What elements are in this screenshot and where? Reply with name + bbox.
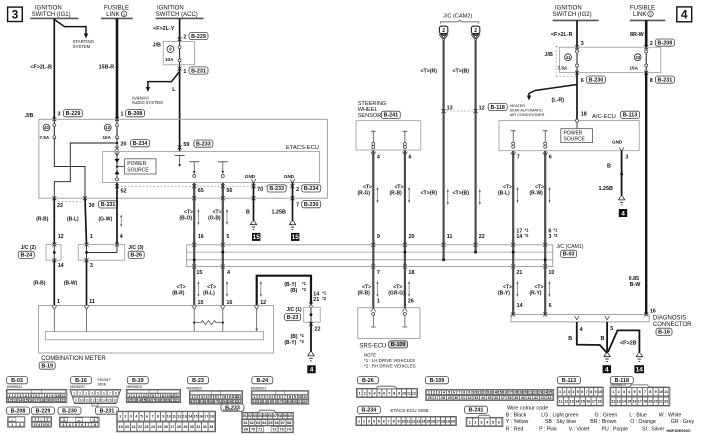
svg-text:(R-L): (R-L): [203, 291, 215, 297]
svg-text:67: 67: [281, 421, 285, 425]
svg-text:17: 17: [592, 400, 596, 404]
svg-text:1.25B: 1.25B: [599, 186, 613, 192]
svg-text:21: 21: [516, 270, 522, 276]
svg-text:18: 18: [409, 270, 415, 276]
svg-text:21: 21: [233, 400, 237, 404]
svg-text:6: 6: [152, 394, 154, 398]
connector table B-23: [188, 377, 209, 384]
connector table B-16 front side: [71, 377, 92, 384]
diagnosis pin 5 wire B to ground: [606, 322, 608, 353]
connector table B-208: [7, 407, 30, 414]
svg-text:21: 21: [298, 400, 302, 404]
meter inner bar: [45, 332, 263, 340]
svg-text:L : Blue: L : Blue: [629, 413, 647, 419]
svg-text:3: 3: [625, 155, 628, 161]
svg-text:1: 1: [63, 418, 65, 422]
svg-text:B: B: [601, 336, 605, 342]
junction dot on B wire: [620, 173, 623, 176]
svg-text:AUDIO SYSTEM: AUDIO SYSTEM: [132, 100, 164, 105]
svg-text:BR : Brown: BR : Brown: [590, 419, 616, 425]
J/C (CAM1) bus box B-03: [187, 245, 553, 267]
connector table B-241: [465, 406, 488, 413]
svg-text:3: 3: [368, 419, 370, 423]
svg-text:52: 52: [248, 414, 252, 418]
svg-text:12: 12: [8, 399, 12, 403]
svg-text:10A: 10A: [103, 135, 112, 140]
svg-text:W : White: W : White: [659, 413, 682, 419]
svg-text:*2: *2: [300, 339, 305, 344]
svg-text:1: 1: [559, 390, 561, 394]
svg-text:70: 70: [251, 428, 255, 432]
svg-text:(B-Y): (B-Y): [498, 291, 510, 297]
svg-text:J/C (CAM2): J/C (CAM2): [443, 14, 472, 20]
svg-text:B-23: B-23: [192, 378, 204, 384]
svg-text:4: 4: [120, 234, 123, 240]
svg-text:13: 13: [487, 391, 491, 395]
fuse 10 10A: [104, 124, 111, 131]
svg-text:12: 12: [252, 400, 256, 404]
pin chevrons under A/C-ECU: [511, 152, 516, 156]
svg-text:9: 9: [229, 395, 231, 399]
svg-text:*1: *1: [322, 290, 327, 295]
wire <T>(R-G) SWS pin4 to bus: [372, 150, 374, 245]
wire (R-B) J/C2 to meter pin 1: [53, 260, 55, 305]
svg-text:20: 20: [523, 391, 527, 395]
svg-text:B-W: B-W: [630, 282, 642, 288]
pin 8 B-231: [644, 71, 648, 75]
svg-text:B-16: B-16: [658, 330, 670, 336]
svg-text:22: 22: [303, 400, 307, 404]
svg-text:B-229: B-229: [36, 408, 51, 414]
svg-text:12: 12: [564, 400, 568, 404]
svg-text:(R-B): (R-B): [358, 291, 371, 297]
connector table B-24: [252, 377, 273, 384]
svg-text:<F>2L-R: <F>2L-R: [551, 32, 573, 38]
svg-text:B-03: B-03: [563, 252, 575, 258]
svg-text:6: 6: [215, 395, 217, 399]
svg-text:26: 26: [408, 298, 414, 304]
connector table B-233: [221, 404, 244, 411]
svg-text:17: 17: [214, 400, 218, 404]
svg-text:(B): (B): [290, 288, 297, 294]
diagnosis connector box B-16: [511, 315, 649, 322]
svg-text:*1 : LH DRIVE VEHICLES: *1 : LH DRIVE VEHICLES: [364, 358, 415, 363]
svg-text:53: 53: [253, 414, 257, 418]
svg-text:2: 2: [363, 419, 365, 423]
svg-text:66: 66: [275, 421, 279, 425]
wire 1.25B pin 2 to ground: [292, 198, 294, 221]
svg-text:9: 9: [294, 395, 296, 399]
svg-text:22: 22: [237, 400, 241, 404]
svg-text:15: 15: [142, 399, 146, 403]
svg-text:1: 1: [183, 69, 186, 75]
connector table B-118: [610, 377, 633, 384]
svg-text:17: 17: [436, 419, 440, 423]
fuse 9 10A: [167, 46, 174, 53]
connector table B-03: [7, 377, 28, 384]
svg-text:21: 21: [313, 297, 319, 303]
svg-text:22: 22: [664, 400, 668, 404]
A/C-ECU internal pin 7: [511, 130, 516, 132]
svg-text:GND: GND: [612, 140, 623, 145]
wire <T>(R-L) bus to meter 16: [222, 267, 224, 306]
svg-text:17: 17: [204, 415, 208, 419]
svg-text:ETACS-ECU: ETACS-ECU: [286, 145, 319, 151]
svg-text:*2: *2: [554, 233, 559, 238]
svg-text:3: 3: [368, 391, 370, 395]
svg-text:B-24: B-24: [20, 253, 32, 259]
svg-text:14: 14: [58, 263, 64, 269]
svg-text:3: 3: [90, 263, 93, 269]
ground tag 14: [634, 365, 644, 373]
SWS internal pin 4: [371, 130, 376, 132]
svg-text:SI : Silver: SI : Silver: [642, 426, 664, 432]
wire <T>(R-W) A/C pin6 to bus: [544, 151, 546, 245]
wire <T>(GR-G) bus to SRS 26: [404, 267, 406, 308]
svg-text:J/C (CAM1): J/C (CAM1): [556, 244, 583, 250]
svg-text:3: 3: [19, 394, 21, 398]
svg-text:33: 33: [209, 425, 213, 429]
svg-text:15: 15: [581, 400, 585, 404]
svg-text:7: 7: [586, 390, 588, 394]
svg-text:30: 30: [89, 203, 95, 209]
J/C (CAM2) connector symbol 2: [471, 26, 479, 33]
svg-text:31: 31: [196, 425, 200, 429]
svg-text:8R-W: 8R-W: [630, 32, 645, 38]
svg-text:POWER: POWER: [127, 161, 146, 167]
svg-text:2: 2: [79, 392, 81, 396]
wire (B-Y) meter 12 loop to J/C1: [257, 276, 311, 306]
ETACS internal pin 56: [218, 161, 228, 163]
svg-text:41: 41: [527, 396, 531, 400]
svg-text:6: 6: [409, 155, 412, 161]
svg-text:O : Orange: O : Orange: [630, 419, 656, 425]
svg-text:11: 11: [477, 391, 481, 395]
svg-text:LINK: LINK: [633, 12, 646, 18]
wire (B-W) J/C3 to meter pin 11: [86, 260, 88, 305]
svg-text:8: 8: [157, 415, 159, 419]
svg-text:10A: 10A: [165, 57, 174, 62]
svg-text:5: 5: [378, 419, 380, 423]
fuse 40 7.5A: [43, 124, 50, 131]
svg-text:3: 3: [62, 423, 64, 427]
svg-text:58: 58: [278, 414, 282, 418]
wire <T>(R) center left: [443, 40, 445, 245]
connector table B-231: [96, 407, 119, 414]
svg-text:12: 12: [177, 415, 181, 419]
J/B bottom edge pins 65 56 70 2: [193, 183, 195, 199]
A/C-ECU internal pin 6: [543, 130, 548, 132]
svg-text:21: 21: [528, 391, 532, 395]
svg-text:13: 13: [617, 400, 621, 404]
svg-text:1: 1: [469, 420, 471, 424]
svg-text:37: 37: [501, 396, 505, 400]
svg-text:4: 4: [605, 367, 609, 374]
wire IG1 <F>2L-B: [53, 18, 55, 119]
svg-text:9: 9: [398, 391, 400, 395]
svg-text:15A: 15A: [630, 66, 639, 71]
svg-text:9: 9: [595, 390, 597, 394]
wire fusible link 5 8R-W: [645, 20, 648, 47]
bus junction dots: [193, 245, 195, 267]
svg-text:10: 10: [233, 395, 237, 399]
svg-text:22: 22: [57, 203, 63, 209]
right junction block box: [560, 47, 661, 72]
wire <T>(O-B) pin 56 to bus: [222, 198, 224, 245]
wire <T>(B-O) pin 65 to bus: [193, 198, 195, 245]
svg-text:3: 3: [12, 7, 19, 21]
svg-text:LG : Light green: LG : Light green: [541, 413, 578, 419]
svg-text:7: 7: [296, 203, 299, 209]
svg-text:*2: *2: [302, 287, 307, 292]
svg-text:B-234: B-234: [304, 186, 319, 192]
svg-text:4: 4: [310, 367, 314, 374]
wire (B-L) pin 30 to J/C3: [85, 198, 87, 244]
svg-text:29: 29: [448, 396, 452, 400]
svg-text:31: 31: [461, 396, 465, 400]
wire (R-B) pin 22 to J/C2: [53, 198, 55, 244]
svg-text:41: 41: [566, 55, 571, 60]
svg-text:16: 16: [29, 399, 33, 403]
svg-text:(R-B): (R-B): [33, 281, 46, 287]
junction block big box: [39, 119, 328, 198]
svg-text:MB988815: MB988815: [127, 385, 143, 389]
svg-text:4: 4: [91, 392, 93, 396]
svg-text:11: 11: [237, 395, 241, 399]
ETACS internal pin 59: [175, 155, 185, 157]
svg-text:15: 15: [204, 400, 208, 404]
svg-text:6: 6: [498, 420, 500, 424]
svg-text:8: 8: [393, 391, 395, 395]
svg-text:16: 16: [273, 400, 277, 404]
svg-text:SWITCH (IG2): SWITCH (IG2): [553, 12, 592, 18]
svg-text:18: 18: [513, 391, 517, 395]
wire <T>(R-B) bus to SRS 1: [372, 267, 374, 308]
svg-text:19: 19: [648, 400, 652, 404]
svg-text:2: 2: [183, 34, 186, 40]
svg-text:40: 40: [44, 125, 49, 130]
wire ACC L to ETACS: [179, 69, 181, 152]
svg-text:B-234: B-234: [362, 408, 377, 414]
branch to heater arrow: [529, 85, 577, 97]
svg-text:1: 1: [191, 395, 193, 399]
svg-text:22: 22: [533, 391, 537, 395]
svg-text:5: 5: [274, 395, 276, 399]
svg-text:20: 20: [121, 142, 127, 148]
connector table B-19: [127, 377, 148, 384]
svg-text:SYSTEM: SYSTEM: [73, 44, 91, 49]
svg-text:22: 22: [315, 327, 321, 333]
svg-text:3: 3: [85, 392, 87, 396]
svg-text:6: 6: [279, 395, 281, 399]
svg-text:SRS-ECU: SRS-ECU: [359, 343, 386, 349]
svg-text:SWITCH (ACC): SWITCH (ACC): [156, 12, 198, 18]
svg-text:16: 16: [650, 309, 656, 315]
svg-text:18: 18: [581, 111, 587, 117]
svg-text:Wire colour code: Wire colour code: [507, 406, 548, 412]
svg-text:3: 3: [138, 394, 140, 398]
combination meter box B-19: [39, 306, 274, 353]
svg-text:6: 6: [103, 392, 105, 396]
svg-text:42: 42: [534, 396, 538, 400]
svg-text:6: 6: [453, 391, 455, 395]
svg-text:20: 20: [50, 399, 54, 403]
svg-text:1: 1: [121, 112, 124, 118]
svg-text:15: 15: [194, 415, 198, 419]
svg-text:2: 2: [364, 391, 366, 395]
svg-text:72: 72: [272, 428, 276, 432]
svg-text:65: 65: [268, 421, 272, 425]
svg-text:19: 19: [288, 400, 292, 404]
svg-text:B: B: [568, 336, 572, 342]
pin chevrons under SWS: [371, 152, 376, 156]
svg-text:B-113: B-113: [623, 113, 637, 119]
svg-text:8: 8: [94, 423, 96, 427]
svg-text:B-109: B-109: [391, 342, 406, 348]
svg-text:22: 22: [479, 234, 485, 240]
svg-text:40: 40: [521, 396, 525, 400]
svg-text:B-231: B-231: [100, 408, 115, 414]
svg-text:7: 7: [458, 391, 460, 395]
svg-text:4: 4: [621, 210, 625, 217]
svg-text:7: 7: [644, 390, 646, 394]
svg-text:GND: GND: [245, 174, 256, 179]
svg-text:J/C (2): J/C (2): [21, 245, 37, 251]
svg-text:12: 12: [127, 399, 131, 403]
svg-text:B-03: B-03: [11, 378, 23, 384]
svg-text:2: 2: [442, 28, 445, 34]
svg-text:43: 43: [541, 396, 545, 400]
svg-text:73: 73: [280, 428, 284, 432]
svg-text:5: 5: [492, 420, 494, 424]
svg-text:18: 18: [643, 400, 647, 404]
svg-text:6: 6: [549, 303, 552, 309]
svg-text:B-231: B-231: [191, 68, 206, 74]
svg-text:11: 11: [172, 415, 176, 419]
wire IG2 <F>2L-R: [576, 20, 578, 47]
svg-text:71: 71: [258, 428, 262, 432]
svg-text:16: 16: [113, 399, 117, 403]
ground A/C-ECU: [618, 197, 625, 200]
svg-text:16: 16: [146, 399, 150, 403]
meter resistor: [193, 322, 195, 324]
svg-text:38: 38: [507, 396, 511, 400]
svg-text:7: 7: [41, 394, 43, 398]
svg-text:<T>(R): <T>(R): [421, 191, 438, 197]
svg-text:28: 28: [441, 396, 445, 400]
wire <F>2B to ground 14: [608, 330, 639, 353]
ground J/C1: [307, 353, 314, 356]
svg-text:1: 1: [253, 395, 255, 399]
svg-text:5: 5: [448, 391, 450, 395]
svg-text:13: 13: [132, 399, 136, 403]
svg-text:*1: *1: [554, 227, 559, 232]
wire ACC <F>2L-Y: [179, 18, 181, 41]
SRS-ECU box B-109: [358, 308, 420, 339]
svg-text:13: 13: [96, 399, 100, 403]
svg-text:9: 9: [377, 234, 380, 240]
svg-text:11: 11: [89, 299, 95, 305]
svg-text:15: 15: [292, 234, 300, 241]
svg-text:15: 15: [426, 419, 430, 423]
svg-text:5: 5: [226, 234, 229, 240]
svg-text:R : Red: R : Red: [506, 426, 524, 432]
svg-text:IGNITION: IGNITION: [157, 6, 184, 12]
svg-text:FUSIBLE: FUSIBLE: [104, 6, 129, 12]
svg-text:*1: *1: [300, 333, 305, 338]
svg-text:B-19: B-19: [41, 363, 53, 369]
ETACS power source with diodes: [116, 151, 118, 177]
wire <T>(R-Y) bus to diagnosis 6: [544, 267, 546, 315]
ground diagnosis right: [636, 353, 643, 356]
svg-text:5: 5: [75, 423, 77, 427]
wire fusible link 15B-R: [116, 18, 119, 119]
branch to AV and NAVI audio system: [148, 72, 180, 89]
svg-text:1: 1: [73, 392, 75, 396]
svg-text:19: 19: [518, 391, 522, 395]
svg-text:20: 20: [293, 400, 297, 404]
svg-text:28: 28: [177, 425, 181, 429]
svg-text:10: 10: [401, 419, 405, 423]
svg-text:B-230: B-230: [589, 77, 604, 83]
wire <T>(B-R) bus to meter 15: [193, 267, 195, 306]
svg-text:5: 5: [210, 395, 212, 399]
svg-text:9: 9: [162, 415, 164, 419]
svg-text:7: 7: [284, 395, 286, 399]
meter internal wiring: [53, 309, 55, 332]
svg-text:9: 9: [468, 391, 470, 395]
svg-text:B-19: B-19: [132, 378, 144, 384]
svg-text:20: 20: [451, 419, 455, 423]
svg-text:22: 22: [175, 399, 179, 403]
svg-text:7.5A: 7.5A: [558, 66, 568, 71]
pin 1 B-231: [178, 67, 182, 71]
svg-text:7.5A: 7.5A: [40, 135, 50, 140]
svg-text:20: 20: [228, 400, 232, 404]
svg-text:P : Pink: P : Pink: [539, 426, 557, 432]
svg-text:5: 5: [141, 415, 143, 419]
svg-text:3: 3: [130, 415, 132, 419]
svg-text:22: 22: [138, 425, 142, 429]
svg-text:SB : Sky blue: SB : Sky blue: [545, 419, 576, 425]
wire <T>(B) center right: [475, 40, 477, 245]
bus exit pins bottom: [192, 265, 196, 269]
svg-text:NOTE: NOTE: [364, 353, 376, 358]
svg-text:MB988794: MB988794: [223, 409, 239, 413]
svg-text:B-24: B-24: [256, 378, 268, 384]
svg-text:13: 13: [13, 399, 17, 403]
svg-text:2: 2: [19, 423, 21, 427]
svg-text:8: 8: [162, 394, 164, 398]
svg-text:GND: GND: [284, 174, 295, 179]
svg-text:2: 2: [433, 391, 435, 395]
svg-text:1: 1: [119, 415, 121, 419]
svg-text:2: 2: [618, 390, 620, 394]
svg-text:7: 7: [88, 423, 90, 427]
J/C (CAM2) connector symbol 2: [439, 26, 447, 33]
svg-text:14: 14: [102, 399, 106, 403]
svg-text:10: 10: [170, 394, 174, 398]
svg-text:2: 2: [133, 394, 135, 398]
svg-text:18: 18: [40, 399, 44, 403]
svg-text:6: 6: [549, 155, 552, 161]
connector table B-230: [58, 407, 81, 414]
svg-text:B-208: B-208: [658, 40, 673, 46]
svg-text:B-113: B-113: [562, 378, 576, 384]
wire 8R-W down right side: [645, 73, 647, 315]
J/C (3) box B-26: [85, 243, 89, 247]
svg-text:6: 6: [47, 423, 49, 427]
